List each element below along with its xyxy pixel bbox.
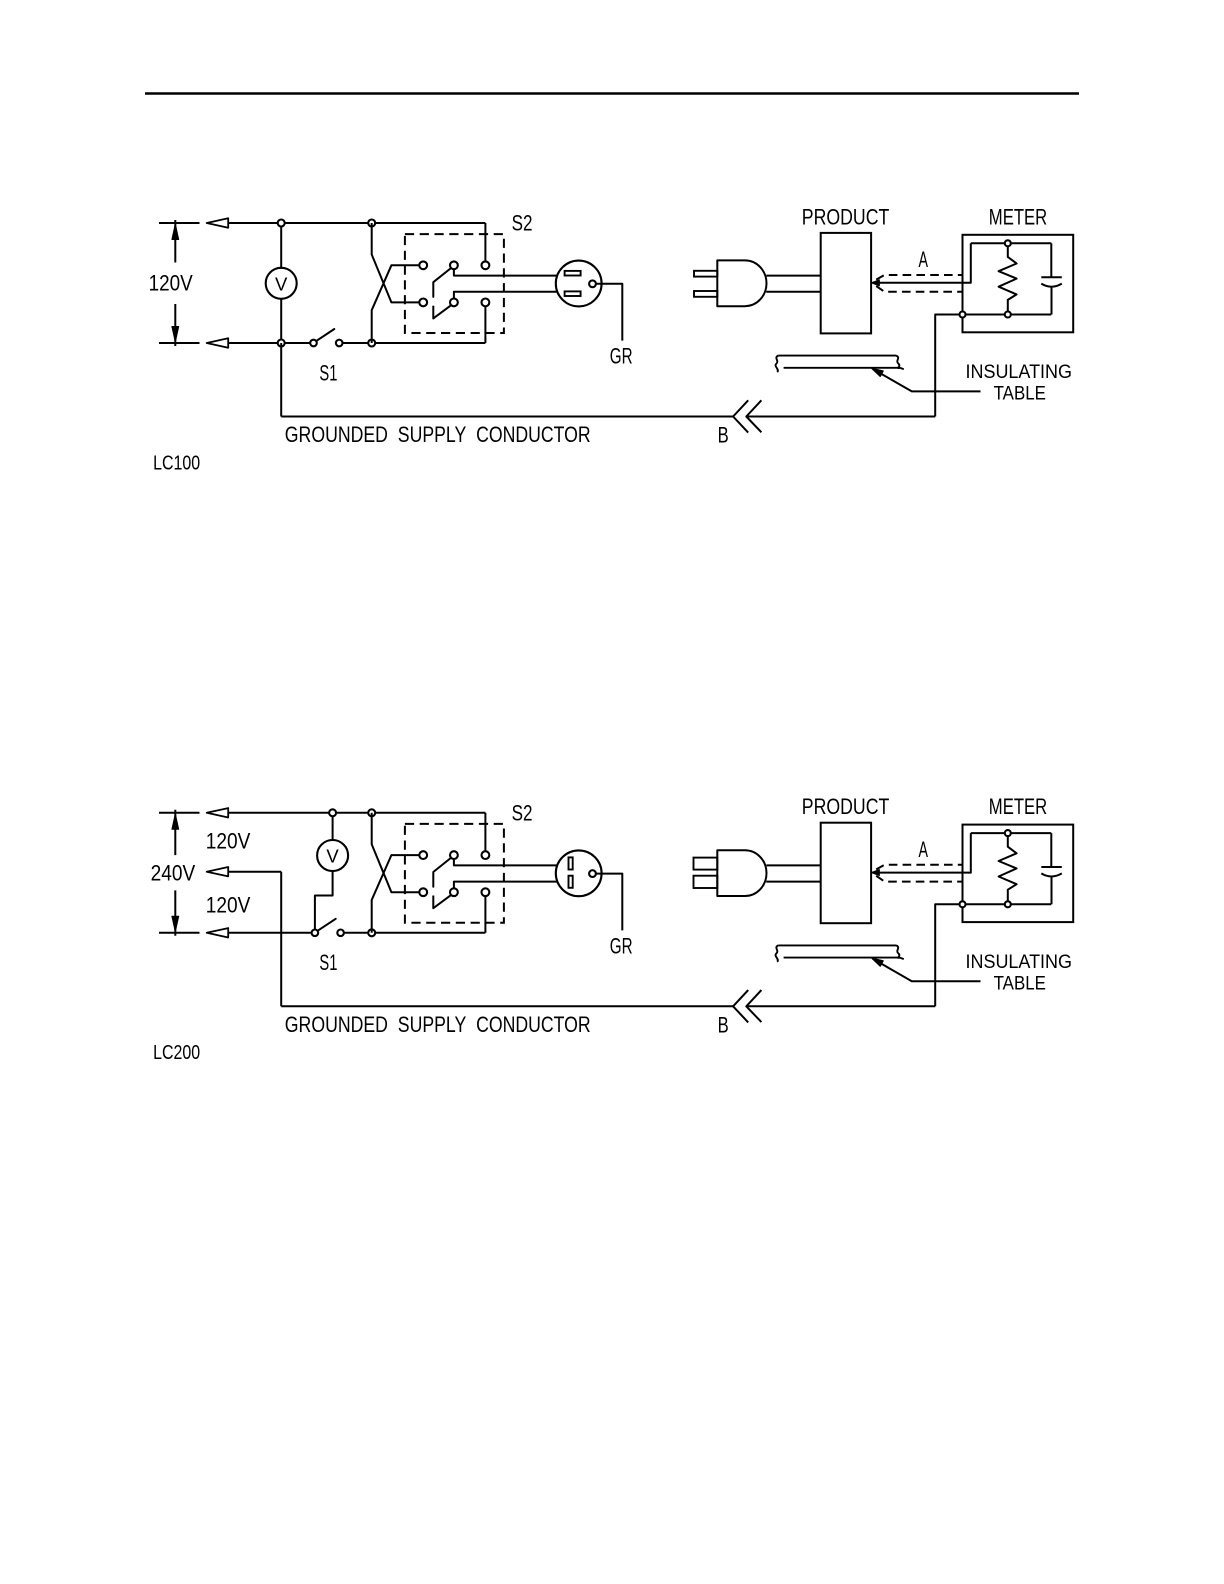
node meter resistor top LC200 [1005,830,1011,836]
wire meter bottom bus LC100 [963,314,1052,316]
S2 terminal right-bottom LC200 [482,888,490,896]
wire LC100 top supply rail [228,222,485,224]
svg-text:S2: S2 [512,800,533,825]
receptacle slot lower (horizontal) [565,291,581,296]
wire LC200 middle supply line [228,871,281,873]
dashed leakage loop upper LC100 [876,275,962,280]
svg-text:GR: GR [610,344,633,369]
wire cord lower LC200 [766,881,821,883]
wire LC100 top supply rail tail [159,222,200,224]
wire S1 to S2 corner LC200 [344,932,486,934]
attachment plug body LC100 [717,260,766,306]
svg-text:METER: METER [989,794,1047,819]
node meter resistor bottom LC100 [1005,312,1011,318]
LC100 dimension arrow down [172,327,179,343]
conductor break chevron 2 LC100 [746,400,761,432]
wire LC100 bottom supply rail [228,342,310,344]
LC100 voltage dimension line [174,220,176,346]
wire S1 to S2 corner LC100 [343,342,486,344]
node meter return LC100 [960,312,966,318]
S2 terminal mid-top LC200 [450,851,458,859]
wire LC200 S2 lower pole out [454,882,558,889]
meter box LC200 [963,825,1074,923]
conductor break chevron 1 LC200 [733,990,748,1022]
S2 terminal left-top LC100 [419,261,427,269]
meter capacitor LC200 [1041,833,1062,904]
wire meter return LC200 [935,904,959,1006]
plug blade lower (wide) [694,876,718,888]
meter capacitor LC100 [1041,243,1062,314]
S2 blade upper LC200 [433,858,450,886]
reversing switch S2 dashed box LC100 [405,234,504,333]
plug blade lower (thin) [694,291,717,297]
plug blade upper (wide) [694,858,718,870]
svg-text:S1: S1 [319,950,337,975]
wire voltmeter top lead [280,223,282,268]
svg-text:A: A [919,247,929,272]
wire meter bottom bus LC200 [963,903,1052,905]
receptacle slot lower (vertical) [569,876,573,888]
switch S1 blade LC200 [319,919,336,930]
wire LC200 top supply rail tail [159,812,200,814]
wire LC200 top rail corner down to S2 [484,813,486,851]
receptacle ground pin LC100 [589,280,596,287]
wire grounded supply conductor right LC100 [746,416,935,418]
product box LC100 [821,233,871,334]
S2 terminal right-bottom LC100 [482,299,490,307]
LC200 dimension arrow down [172,916,179,932]
attachment plug body LC200 [717,850,766,896]
svg-text:TABLE: TABLE [994,383,1046,405]
node LC100 bottom rail to S2 cross [368,340,375,347]
svg-text:120V: 120V [206,892,251,917]
wire LC200 neutral drop [280,872,282,1007]
wire LC200 S2 upper pole out [454,859,558,865]
svg-text:METER: METER [989,204,1047,229]
svg-text:INSULATING: INSULATING [966,951,1073,973]
node meter return LC200 [960,901,966,907]
conductor break chevron 1 LC100 [733,400,748,432]
wire LC200 bottom supply rail tail [159,932,200,934]
wire LC100 cross lower-to-upper [372,265,420,343]
wire LC200 bottom rail corner up to S2 [484,896,486,933]
wire grounded supply conductor left LC200 [281,1005,733,1007]
svg-text:B: B [718,1012,729,1037]
wire grounded conductor drop [280,343,282,417]
svg-text:120V: 120V [149,271,193,296]
receptacle circle LC200 [556,850,602,896]
wire GR lead LC100 [596,284,622,341]
insulating table plank LC200 [776,945,904,961]
svg-text:S1: S1 [319,360,337,385]
node voltmeter top rail tap [329,809,336,816]
wire LC200 top supply rail [228,812,485,814]
svg-text:V: V [326,846,339,867]
wire GR lead LC200 [596,874,622,931]
receptacle slot upper (horizontal) [565,271,581,276]
node voltmeter bottom rail tap [278,340,285,347]
node LC200 top rail to S2 cross [368,809,375,816]
receptacle circle LC100 [556,261,602,307]
wire LC100 bottom supply rail tail [159,342,200,344]
meter resistor LC200 [999,837,1017,901]
wire meter top bus LC200 [971,832,1052,834]
svg-text:V: V [275,273,288,294]
svg-text:PRODUCT: PRODUCT [802,204,890,229]
switch S1 right contact LC100 [336,340,343,347]
wire grounded supply conductor right LC200 [746,1005,935,1007]
LC200 top supply open arrowhead [207,808,229,817]
S2 terminal mid-bottom LC200 [450,888,458,896]
meter resistor LC100 [999,247,1017,311]
S2 terminal left-bottom LC200 [419,888,427,896]
switch S1 blade LC100 [317,329,334,340]
wire meter top bus LC100 [971,242,1052,244]
S2 blade link dash LC200 [432,896,434,909]
wire cord upper LC200 [766,864,820,866]
S2 terminal mid-bottom LC100 [450,299,458,307]
switch S1 left contact LC200 [312,930,319,937]
insulating table leader LC200 [873,959,981,981]
voltmeter V1 circle [266,268,297,299]
voltmeter V2 circle [317,840,348,871]
switch S1 right contact LC200 [337,930,344,937]
svg-text:240V: 240V [151,860,196,885]
svg-text:GR: GR [610,933,633,958]
receptacle slot upper (vertical) [569,857,573,869]
reversing switch S2 dashed box LC200 [405,824,504,923]
LC200 voltage dimension line [174,810,176,936]
node voltmeter top rail tap [278,220,285,227]
wire voltmeter bottom lead [280,299,282,343]
S2 blade upper LC100 [433,269,450,297]
svg-text:120V: 120V [206,829,251,854]
svg-text:B: B [718,423,729,448]
S2 terminal right-top LC100 [482,261,490,269]
LC100 bottom supply open arrowhead [207,338,229,347]
wire leakage A solid LC100 [873,243,971,282]
wire cord upper LC100 [766,275,820,277]
plug blade upper (thin) [694,271,717,277]
svg-text:INSULATING: INSULATING [966,361,1073,383]
wire LC100 S2 lower pole out [454,292,558,299]
insulating table pointer arrowhead LC100 [872,368,884,376]
leakage arrowhead A LC100 [872,280,880,286]
product box LC200 [821,823,871,924]
svg-text:LC100: LC100 [153,451,200,474]
S2 terminal left-top LC200 [419,851,427,859]
wire LC200 bottom supply rail [228,932,312,934]
node LC200 bottom rail to S2 cross [368,929,375,936]
leakage arrowhead A LC200 [872,870,880,876]
page top rule [145,92,1079,94]
LC100 dimension arrow up [172,224,179,240]
node meter resistor bottom LC200 [1005,901,1011,907]
S2 terminal left-bottom LC100 [419,299,427,307]
node LC100 top rail to S2 cross [368,220,375,227]
dashed leakage loop lower LC200 [876,876,962,882]
svg-text:GROUNDED SUPPLY CONDUCTOR: GROUNDED SUPPLY CONDUCTOR [285,422,591,447]
dashed leakage loop upper LC200 [876,865,962,870]
wire meter return LC100 [935,315,959,417]
wire LC100 top rail corner down to S2 [484,223,486,261]
S2 blade lower LC100 [433,306,450,319]
conductor break chevron 2 LC200 [746,990,761,1022]
svg-text:TABLE: TABLE [994,973,1046,995]
svg-text:PRODUCT: PRODUCT [802,794,890,819]
wire grounded supply conductor left LC100 [281,416,733,418]
wire voltmeter top lead [332,813,334,840]
wire LC200 cross lower-to-upper [372,855,420,933]
wire LC100 S2 upper pole out [454,269,558,275]
LC200 bottom supply open arrowhead [207,928,229,937]
wire LC100 cross upper-to-lower [372,223,420,302]
S2 terminal mid-top LC100 [450,261,458,269]
LC200 middle supply open arrowhead [207,867,229,876]
wire LC100 bottom rail corner up to S2 [484,306,486,343]
S2 blade lower LC200 [433,896,450,909]
svg-text:LC200: LC200 [153,1041,200,1064]
svg-text:S2: S2 [512,211,533,236]
svg-text:A: A [919,837,929,862]
S2 terminal right-top LC200 [482,851,490,859]
insulating table leader LC100 [873,369,981,391]
LC200 dimension arrow up [172,814,179,830]
meter box LC100 [963,235,1074,332]
wire cord lower LC100 [766,291,821,293]
LC100 top supply open arrowhead [207,218,229,227]
insulating table plank LC100 [776,356,904,372]
wire voltmeter bottom lead [315,871,333,930]
receptacle ground pin LC200 [589,870,596,877]
insulating table pointer arrowhead LC200 [872,958,884,966]
switch S1 left contact LC100 [310,340,317,347]
svg-text:GROUNDED SUPPLY CONDUCTOR: GROUNDED SUPPLY CONDUCTOR [285,1012,591,1037]
wire leakage A solid LC200 [873,833,971,873]
node meter resistor top LC100 [1005,240,1011,246]
dashed leakage loop lower LC100 [876,286,962,292]
S2 blade link dash LC100 [432,306,434,319]
wire LC200 cross upper-to-lower [372,813,420,892]
